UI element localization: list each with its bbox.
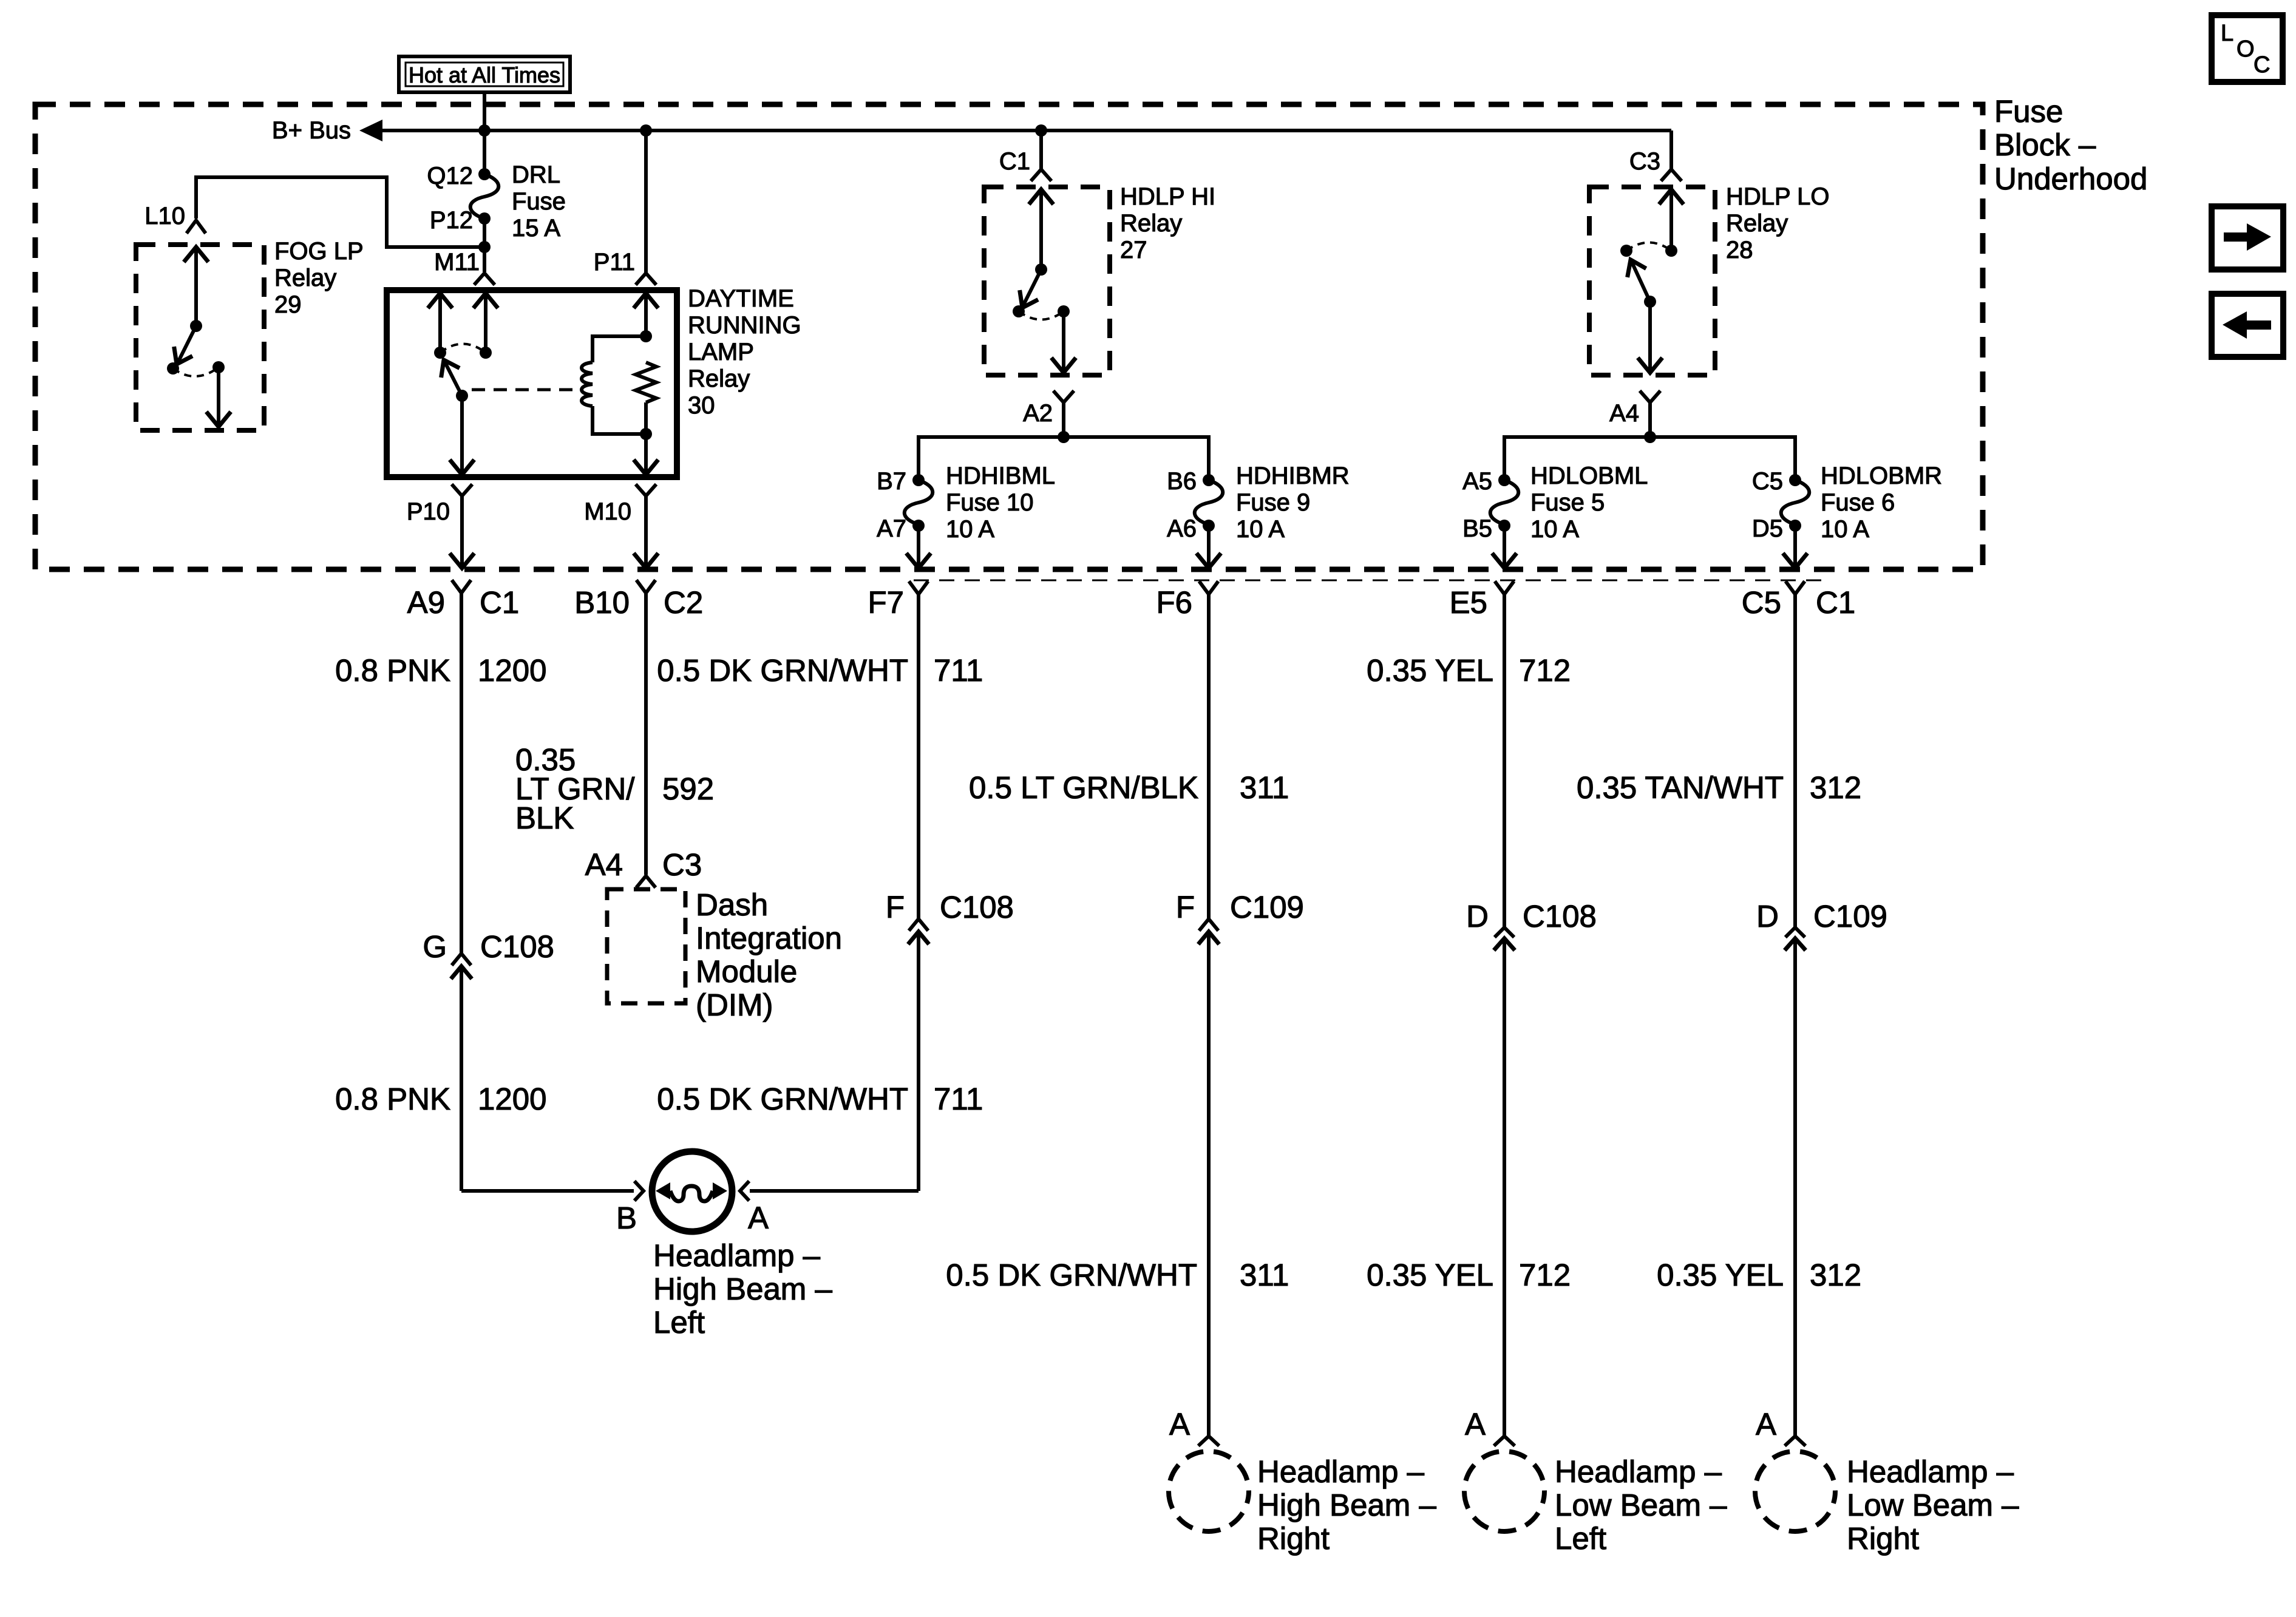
svg-text:711: 711 [934,1082,983,1116]
svg-text:DAYTIME: DAYTIME [688,285,794,312]
svg-text:Low Beam –: Low Beam – [1555,1488,1727,1522]
svg-text:Fuse 5: Fuse 5 [1530,489,1605,516]
svg-text:Relay: Relay [1120,210,1182,237]
svg-text:E5: E5 [1450,585,1487,620]
svg-text:0.5 DK GRN/WHT: 0.5 DK GRN/WHT [657,1082,908,1116]
svg-text:C2: C2 [664,585,703,620]
svg-text:C108: C108 [940,890,1014,924]
svg-text:311: 311 [1240,1258,1289,1292]
svg-text:D: D [1466,899,1489,934]
svg-text:311: 311 [1240,770,1289,805]
svg-text:A2: A2 [1023,400,1053,427]
svg-text:M11: M11 [434,249,480,276]
svg-text:0.35 YEL: 0.35 YEL [1367,1258,1493,1292]
svg-text:L: L [2221,21,2233,46]
svg-text:0.8 PNK: 0.8 PNK [335,653,450,688]
svg-text:B7: B7 [877,468,906,495]
svg-text:B+ Bus: B+ Bus [272,117,351,144]
svg-text:C108: C108 [1523,899,1597,934]
svg-text:F: F [1176,890,1195,924]
svg-text:(DIM): (DIM) [696,988,773,1022]
svg-text:592: 592 [662,771,714,806]
svg-text:C109: C109 [1230,890,1304,924]
svg-text:Underhood: Underhood [1994,161,2147,196]
svg-text:B6: B6 [1167,468,1197,495]
svg-text:P12: P12 [430,207,473,234]
svg-text:Headlamp –: Headlamp – [653,1238,821,1273]
svg-text:G: G [423,929,447,964]
svg-text:C1: C1 [1816,585,1855,620]
svg-text:0.35 YEL: 0.35 YEL [1657,1258,1784,1292]
svg-text:0.5 LT GRN/BLK: 0.5 LT GRN/BLK [969,770,1198,805]
svg-text:HDLOBML: HDLOBML [1530,463,1648,489]
svg-text:1200: 1200 [478,653,546,688]
svg-text:RUNNING: RUNNING [688,312,801,339]
svg-text:P11: P11 [594,249,635,276]
svg-text:C: C [2254,52,2270,78]
svg-text:1200: 1200 [478,1082,546,1116]
svg-text:P10: P10 [407,498,450,525]
svg-text:C3: C3 [662,847,702,882]
svg-text:C109: C109 [1813,899,1887,934]
svg-text:A6: A6 [1167,515,1197,542]
svg-text:F6: F6 [1156,585,1192,620]
svg-text:B5: B5 [1462,515,1492,542]
svg-text:C3: C3 [1629,148,1660,175]
svg-text:0.5 DK GRN/WHT: 0.5 DK GRN/WHT [657,653,908,688]
svg-text:30: 30 [688,392,715,419]
svg-text:312: 312 [1810,1258,1861,1292]
svg-text:Fuse 6: Fuse 6 [1821,489,1895,516]
svg-text:A: A [1756,1407,1776,1442]
svg-text:Headlamp –: Headlamp – [1847,1454,2014,1489]
svg-text:Dash: Dash [696,887,768,922]
svg-text:Module: Module [696,954,797,989]
svg-text:29: 29 [274,291,302,318]
svg-text:High Beam –: High Beam – [1257,1488,1436,1522]
svg-text:C5: C5 [1752,468,1783,495]
svg-text:A: A [748,1201,769,1235]
svg-text:Q12: Q12 [427,163,473,189]
svg-text:L10: L10 [144,203,185,229]
svg-text:HDHIBML: HDHIBML [946,463,1055,489]
svg-text:Fuse 10: Fuse 10 [946,489,1034,516]
svg-text:0.8 PNK: 0.8 PNK [335,1082,450,1116]
svg-text:Fuse 9: Fuse 9 [1236,489,1310,516]
svg-text:C1: C1 [999,148,1030,175]
svg-text:A: A [1465,1407,1486,1442]
svg-text:A5: A5 [1462,468,1492,495]
svg-text:28: 28 [1726,237,1753,263]
svg-text:27: 27 [1120,237,1147,263]
svg-text:C1: C1 [480,585,519,620]
svg-text:B10: B10 [574,585,630,620]
svg-text:Right: Right [1847,1521,1919,1556]
svg-text:C108: C108 [480,929,554,964]
svg-text:Relay: Relay [688,365,750,392]
svg-text:Hot at All Times: Hot at All Times [409,63,560,87]
svg-text:312: 312 [1810,770,1861,805]
svg-text:Low Beam –: Low Beam – [1847,1488,2019,1522]
svg-text:D5: D5 [1752,515,1783,542]
svg-text:BLK: BLK [515,801,574,835]
svg-text:A7: A7 [877,515,906,542]
svg-text:C5: C5 [1742,585,1781,620]
svg-text:Block –: Block – [1994,127,2096,162]
svg-text:10 A: 10 A [946,516,994,543]
svg-text:A4: A4 [585,847,623,882]
svg-text:LAMP: LAMP [688,339,754,365]
svg-text:A: A [1169,1407,1190,1442]
svg-text:0.35 TAN/WHT: 0.35 TAN/WHT [1577,770,1784,805]
svg-text:DRL: DRL [512,161,560,188]
svg-text:Integration: Integration [696,921,842,955]
svg-text:Relay: Relay [274,265,336,291]
svg-text:0.5 DK GRN/WHT: 0.5 DK GRN/WHT [946,1258,1197,1292]
svg-text:15 A: 15 A [512,215,560,242]
svg-text:O: O [2237,36,2255,62]
svg-text:HDLP LO: HDLP LO [1726,183,1829,210]
svg-text:Fuse: Fuse [1994,94,2063,129]
svg-text:0.35 YEL: 0.35 YEL [1367,653,1493,688]
svg-text:F: F [886,890,905,924]
svg-text:A4: A4 [1609,400,1639,427]
svg-text:712: 712 [1519,1258,1571,1292]
svg-text:Headlamp –: Headlamp – [1555,1454,1722,1489]
svg-text:10 A: 10 A [1530,516,1579,543]
svg-text:712: 712 [1519,653,1571,688]
svg-text:A9: A9 [407,585,445,620]
svg-text:10 A: 10 A [1821,516,1869,543]
svg-text:HDLP HI: HDLP HI [1120,183,1215,210]
svg-text:M10: M10 [584,498,631,525]
svg-text:D: D [1756,899,1779,934]
svg-text:Headlamp –: Headlamp – [1257,1454,1425,1489]
svg-text:Fuse: Fuse [512,188,566,215]
svg-text:Left: Left [1555,1521,1606,1556]
svg-text:B: B [616,1201,637,1235]
svg-text:10 A: 10 A [1236,516,1285,543]
svg-text:F7: F7 [868,585,904,620]
svg-text:HDLOBMR: HDLOBMR [1821,463,1942,489]
svg-text:Relay: Relay [1726,210,1788,237]
svg-text:Right: Right [1257,1521,1330,1556]
svg-text:711: 711 [934,653,983,688]
svg-text:FOG LP: FOG LP [274,238,364,265]
svg-text:HDHIBMR: HDHIBMR [1236,463,1350,489]
svg-text:High Beam –: High Beam – [653,1272,832,1306]
svg-text:Left: Left [653,1305,705,1340]
